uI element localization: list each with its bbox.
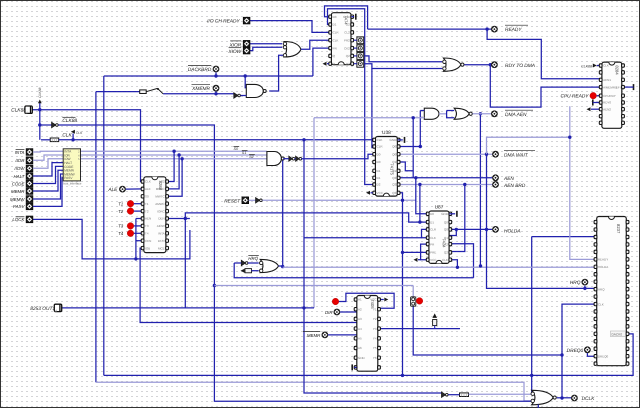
wire riser to status line	[282, 159, 284, 267]
svg-text:GND: GND	[343, 15, 351, 19]
svg-text:GND: GND	[441, 212, 449, 216]
svg-text:MEMR: MEMR	[11, 189, 25, 194]
resistor R1 clock	[50, 138, 59, 142]
flip-flop U30 7474	[329, 13, 354, 66]
termination EFI	[633, 84, 635, 90]
svg-text:PRE: PRE	[430, 251, 436, 255]
wire port to bus block	[33, 163, 63, 176]
svg-text:IORC: IORC	[157, 209, 165, 213]
svg-text:CL2: CL2	[344, 31, 350, 35]
svg-text:CK2: CK2	[344, 46, 350, 50]
svg-text:MWTC: MWTC	[155, 195, 165, 199]
wire VCC arrow stub	[418, 259, 421, 261]
wire RESET to inverter	[249, 199, 256, 201]
wire drop to NAND input A	[245, 76, 246, 88]
wire NOR input tie 2	[447, 110, 455, 112]
svg-text:MEMW: MEMW	[10, 197, 25, 202]
svg-text:AEN: AEN	[503, 176, 514, 182]
svg-text:Q2: Q2	[346, 62, 350, 66]
port AEN	[492, 174, 499, 181]
junction at DACK trunk	[401, 374, 404, 377]
svg-text:/IOR: /IOR	[14, 158, 25, 163]
port I/O CH READY	[243, 17, 250, 24]
port CODE	[26, 180, 33, 187]
wire S0 lavender	[81, 150, 267, 152]
svg-text:DREQ0: DREQ0	[598, 354, 609, 358]
wire RDY0 stub	[593, 102, 600, 104]
net flag arrow into OR	[241, 269, 245, 273]
svg-text:ALE: ALE	[145, 187, 151, 191]
svg-text:GND: GND	[358, 356, 366, 360]
svg-text:T4: T4	[118, 231, 124, 236]
bus controller U23 8288	[141, 177, 168, 253]
DACK0 pin label	[611, 331, 626, 337]
svg-text:A3: A3	[358, 317, 362, 321]
svg-text:ALE: ALE	[107, 187, 118, 193]
wire AND out link	[439, 113, 447, 115]
wire down to 8237 HRQ	[487, 154, 597, 288]
svg-text:T1: T1	[118, 202, 124, 207]
svg-text:8237: 8237	[616, 224, 621, 234]
svg-text:READY: READY	[598, 258, 608, 262]
svg-text:S0: S0	[145, 195, 149, 199]
svg-text:CLR: CLR	[430, 228, 437, 232]
net flag CLK88 up arrow	[38, 100, 42, 104]
wire 8288 loop	[136, 219, 190, 259]
port DCLK	[571, 395, 578, 402]
wire T4 stub	[134, 232, 144, 234]
svg-text:DCLK: DCLK	[582, 396, 596, 402]
junction at U87 pin2 line	[418, 220, 421, 223]
wire AND input A stub	[420, 110, 424, 112]
svg-text:Q2: Q2	[392, 183, 396, 187]
wire READY line	[368, 28, 492, 30]
wire down to 8237 READY	[570, 106, 597, 259]
wire AEN line	[399, 177, 493, 179]
wire DACKBRD net horizontal	[104, 75, 313, 77]
junction HOLDA line at trunk	[485, 228, 488, 231]
port HALT	[26, 173, 33, 180]
power bar U87 GND	[456, 211, 458, 217]
svg-text:D0: D0	[333, 15, 337, 19]
svg-text:D1: D1	[430, 220, 434, 224]
svg-text:Y2: Y2	[373, 317, 377, 321]
wire port to bus block	[33, 155, 63, 160]
wire down to U38 pin 2	[372, 69, 376, 148]
junction inverter tap	[38, 123, 41, 126]
junction OUT1 at x304	[302, 306, 305, 309]
net flag arrow U30 bottom	[323, 62, 327, 66]
NAND gate U21a 3-input	[267, 152, 284, 166]
wire HRQ port stub	[584, 286, 586, 289]
svg-text:AEN1: AEN1	[603, 78, 611, 82]
state indicator at jumper	[416, 298, 423, 305]
wire inverter to NAND	[241, 95, 247, 97]
svg-text:Q3: Q3	[392, 191, 396, 195]
junction AEN BRD drop	[418, 183, 421, 186]
wire U87 Q to HOLDA port	[449, 228, 492, 230]
svg-text:RDY0: RDY0	[603, 101, 611, 105]
wire HRQ inverter out	[248, 262, 259, 264]
wire CLK divider feed down	[304, 140, 442, 393]
state indicator at 7405	[332, 298, 339, 305]
junction S line	[177, 153, 180, 156]
net flag CLK arrow	[71, 130, 75, 134]
svg-text:VCC: VCC	[370, 298, 377, 302]
svg-text:Q2: Q2	[444, 251, 448, 255]
junction READY branch	[485, 27, 488, 30]
inverter U17a RESET	[256, 198, 263, 203]
svg-text:CODE: CODE	[12, 181, 25, 186]
wire 8288 pin west	[136, 240, 144, 242]
bus interface block U22	[63, 149, 82, 186]
wire branch to U87 PRE pin	[403, 251, 429, 253]
power bar U38 GND	[404, 137, 406, 143]
svg-text:CLK: CLK	[603, 64, 609, 68]
junction DACK trunk	[530, 374, 533, 377]
svg-text:DEN: DEN	[158, 217, 164, 221]
svg-text:T4: T4	[145, 232, 149, 236]
svg-text:CLK: CLK	[598, 302, 604, 306]
power bar U30 GND	[355, 14, 357, 20]
connector J1 pads	[357, 37, 364, 44]
svg-text:CLK: CLK	[76, 131, 83, 135]
junction RDY trunk end	[479, 264, 482, 267]
wire LOCK run	[33, 219, 136, 259]
wire VCC stub U38	[371, 192, 373, 194]
port RDY TO DMA	[491, 61, 498, 68]
junction 8237 READY feed	[568, 136, 571, 139]
NAND gate U13a	[246, 84, 266, 97]
junction LOCK merge	[134, 257, 137, 260]
wire RESET lavender run	[262, 199, 415, 201]
svg-text:D1: D1	[377, 169, 381, 173]
port XIOW	[243, 47, 250, 54]
junction AEN BRD drop 2	[463, 183, 466, 186]
port AEN BRD	[492, 181, 499, 188]
port XIOR	[243, 40, 250, 47]
port DIR	[334, 309, 341, 316]
svg-text:HALT: HALT	[13, 174, 24, 179]
svg-text:8284: 8284	[614, 65, 619, 75]
wire to DMA AEN port	[473, 113, 492, 115]
svg-text:Q0: Q0	[444, 228, 448, 232]
wire OR out lavender to 8237 HOLDA	[283, 266, 597, 268]
junction OR out	[281, 265, 284, 268]
wire port to bus block	[33, 150, 63, 153]
OR gate U14a with inverted inputs	[283, 42, 301, 58]
wire 8288 to 7405	[140, 248, 357, 322]
svg-text:DMA WAIT: DMA WAIT	[504, 153, 529, 159]
wire west run into U87 pin4	[304, 237, 422, 239]
svg-text:T3: T3	[118, 224, 124, 229]
svg-text:VCC: VCC	[377, 191, 384, 195]
junction DCLK trunk	[560, 353, 563, 356]
svg-text:A2: A2	[358, 307, 362, 311]
port RESET	[242, 197, 249, 204]
junction on CLK88-bar vertical	[213, 284, 216, 287]
svg-text:A6: A6	[358, 346, 362, 350]
wire flag to OR input B	[252, 270, 259, 272]
wire OR out to U30 pin 4	[301, 40, 331, 49]
wire to NOR U15 input B	[364, 64, 442, 69]
svg-text:Q2: Q2	[392, 176, 396, 180]
register U38 74175	[373, 137, 400, 197]
power bar 7405 GND	[351, 364, 353, 370]
junction DCLK out	[560, 396, 563, 399]
net flag VCC arrow U87	[414, 258, 418, 262]
state indicator T1	[127, 200, 134, 207]
svg-text:A1: A1	[358, 298, 362, 302]
wire CLK long run to U38	[59, 139, 376, 141]
wire HRQ feed run	[234, 263, 473, 278]
wire NOR out to DCLK port	[557, 397, 571, 399]
svg-text:A4: A4	[358, 327, 362, 331]
wire drop to AEN line	[412, 118, 414, 178]
NOR gate U15a	[443, 58, 464, 71]
inverter U21b	[289, 156, 295, 161]
junction AEN drop	[412, 116, 415, 119]
wire NAND out to OR input C	[269, 55, 284, 91]
wire status decode to U38	[301, 154, 375, 159]
svg-text:XMEMR: XMEMR	[191, 86, 210, 92]
svg-text:T2: T2	[145, 209, 149, 213]
svg-text:CLK88: CLK88	[62, 118, 77, 124]
svg-text:D1: D1	[333, 23, 337, 27]
svg-text:INTA: INTA	[158, 232, 165, 236]
wire port to bus block	[33, 170, 63, 191]
svg-text:U38: U38	[382, 130, 391, 136]
wire CLK stub 8284	[597, 65, 600, 67]
wire CLK88-bar long run	[58, 125, 531, 401]
svg-text:HRQ: HRQ	[570, 280, 581, 286]
svg-text:S2: S2	[161, 180, 165, 184]
wire U87 pin3-4 tie	[422, 229, 429, 237]
jumper JP1	[411, 297, 416, 306]
svg-text:Y1: Y1	[373, 307, 377, 311]
svg-text:HRQ: HRQ	[598, 287, 605, 291]
junction XMEMR port	[214, 92, 217, 95]
wire CLK88 down to divider	[39, 110, 41, 140]
wire into HRQ inverter	[234, 262, 241, 264]
svg-text:RESET: RESET	[224, 198, 241, 204]
junction S line	[172, 150, 175, 153]
inverter U18a HRQ	[241, 260, 248, 265]
port DREQ0	[584, 346, 591, 353]
svg-text:GND: GND	[390, 138, 398, 142]
wire XMEMR bottom run	[96, 382, 532, 401]
svg-text:VCC: VCC	[430, 258, 437, 262]
svg-text:Q0: Q0	[392, 152, 396, 156]
junction U87 pin2 tie	[455, 228, 458, 231]
svg-text:D0: D0	[377, 152, 381, 156]
wire jumper down to DCLK trunk	[413, 306, 562, 356]
wire 8253 OUT1 run	[62, 307, 314, 309]
svg-text:CEN: CEN	[145, 239, 151, 243]
wire XMEMR vertical trunk V1	[95, 92, 97, 383]
inverter CLK88	[52, 122, 59, 127]
wire port to bus block	[33, 159, 63, 169]
wire switch to inverter	[163, 93, 234, 95]
svg-text:DMA AEN: DMA AEN	[505, 112, 527, 118]
svg-text:PASV: PASV	[13, 204, 25, 209]
wire S drop to 8288	[169, 155, 179, 189]
wire port to bus block	[33, 174, 63, 199]
wire I/O CH READY to U30 pin 3	[250, 21, 331, 33]
state indicator T2	[127, 208, 134, 215]
net flag box	[245, 269, 252, 273]
junction NAND drop	[244, 74, 247, 77]
junction CLK to DCLK chain	[302, 138, 305, 141]
wire U38 Q1 jog	[399, 162, 413, 171]
svg-text:D1: D1	[377, 176, 381, 180]
wire XIOW to OR input B	[250, 47, 282, 50]
wire AND input B lavender	[314, 117, 424, 119]
svg-text:DREQ0: DREQ0	[567, 348, 584, 354]
svg-text:T2: T2	[118, 209, 124, 214]
wire U30 pin2 loop down to U38	[328, 9, 376, 185]
port 8253 OUT1	[54, 304, 61, 311]
svg-text:D0: D0	[430, 212, 434, 216]
junction RDY TO DMA branch	[489, 63, 492, 66]
wire riser from U38 Q0	[419, 111, 421, 147]
svg-text:Y5: Y5	[373, 346, 377, 350]
svg-text:U87: U87	[435, 205, 444, 211]
wire stub 8288 AEN pin	[136, 218, 144, 220]
wire DACKBRD vertical trunk V2	[103, 76, 105, 375]
svg-text:T3: T3	[145, 224, 149, 228]
port MEMW	[26, 196, 33, 203]
wire DACKBRD port stub	[215, 73, 217, 77]
wire stub below NOR gate	[537, 405, 539, 408]
wire U38 Q0-bar to DMA WAIT	[399, 153, 493, 155]
wire T2 stub	[134, 210, 144, 212]
state indicator T3	[127, 223, 134, 230]
wire U87 pin7 to lavender run	[449, 260, 457, 268]
port READY	[491, 26, 498, 33]
net flag CLK88 arrow at 8284	[593, 64, 597, 68]
net flag up arrow with box	[432, 313, 437, 328]
svg-text:D0: D0	[377, 160, 381, 164]
junction AEN to U87	[414, 176, 417, 179]
state indicator T4	[127, 230, 134, 237]
svg-text:INTA: INTA	[15, 150, 25, 155]
wire T1 stub	[134, 203, 144, 205]
port LOCK	[26, 216, 33, 223]
net flag arrow U38 VCC	[366, 191, 370, 195]
wire inverter to R2	[448, 394, 459, 396]
wire XIOR to OR input A	[250, 43, 282, 45]
svg-text:PR2: PR2	[344, 38, 350, 42]
junction U87 clock tap	[456, 266, 459, 269]
state indicator CPU READY	[590, 92, 597, 99]
wire to NOR U15 input A	[364, 56, 442, 62]
junction U87 PRE branch	[401, 251, 404, 254]
wire lavender mid run	[214, 285, 413, 287]
junction S line	[180, 157, 183, 160]
wire GND stub U87	[449, 213, 455, 215]
svg-text:READY: READY	[505, 27, 522, 33]
port PASV	[26, 203, 33, 210]
svg-text:MCE: MCE	[158, 246, 165, 250]
port DMA AEN	[491, 110, 498, 117]
wire to 8237 CS pin	[532, 236, 597, 238]
svg-text:Y6: Y6	[373, 356, 377, 360]
wire RDY TO DMA to 8284 pin	[490, 65, 599, 107]
wire S2 lavender	[81, 158, 267, 160]
svg-text:CLK: CLK	[442, 258, 448, 262]
wire GND stub U30	[351, 16, 354, 18]
wire MEMR to 7405	[328, 334, 357, 336]
wire U87 pin2 riser	[449, 229, 456, 235]
svg-text:CLK: CLK	[333, 38, 339, 42]
wire U38 Q0	[399, 146, 421, 148]
port IOR	[26, 157, 33, 164]
wire DACK trunk drop to NOR	[531, 375, 533, 393]
wire port to bus block	[33, 178, 63, 207]
svg-text:CLK88: CLK88	[11, 108, 26, 114]
svg-text:Q1: Q1	[392, 160, 396, 164]
wire 7405 output run	[378, 328, 460, 330]
svg-text:CLK: CLK	[377, 138, 383, 142]
port MEMR	[26, 188, 33, 195]
port DMA WAIT	[492, 151, 499, 158]
svg-text:AEN BRD: AEN BRD	[503, 183, 526, 189]
DMA controller U26 8237	[594, 217, 629, 366]
svg-text:CLK: CLK	[62, 133, 72, 139]
wire 7405 feedback loop	[339, 293, 394, 308]
OR gate U18b	[260, 259, 279, 272]
wire AEN BRD line	[399, 184, 493, 186]
svg-text:LOCK: LOCK	[12, 217, 25, 222]
svg-text:AMWC: AMWC	[155, 202, 165, 206]
wire vertical x531 trunk	[531, 237, 533, 376]
wire DIR stub	[340, 311, 357, 313]
inverter U21c	[296, 156, 302, 161]
wire port to bus block	[33, 166, 63, 183]
flip-flop U87 7474	[426, 211, 451, 263]
port XMEMR	[213, 85, 220, 92]
wire DREQ0 stub	[587, 353, 596, 356]
svg-text:AEN2: AEN2	[603, 107, 611, 111]
svg-text:Q1: Q1	[392, 169, 396, 173]
svg-text:HOLDA: HOLDA	[504, 228, 521, 234]
wire NAND to inv	[283, 158, 289, 160]
svg-text:Q1: Q1	[444, 236, 448, 240]
svg-text:T1: T1	[145, 202, 149, 206]
wire U38 Q3 vertical x402	[399, 193, 403, 376]
wire NOR out to RDY TO DMA port	[464, 64, 491, 66]
wire XMEMR to switch	[96, 91, 140, 93]
wire to CLK88 inverter	[41, 124, 52, 126]
port HRQ	[582, 279, 589, 286]
svg-text:Y4: Y4	[373, 337, 377, 341]
svg-text:RDY TO DMA: RDY TO DMA	[505, 63, 535, 69]
wire READY to 8284 AEN1	[487, 29, 599, 79]
junction status line	[281, 157, 284, 160]
svg-text:HRQ: HRQ	[248, 256, 258, 261]
svg-text:XIOW: XIOW	[227, 49, 241, 55]
switch S1	[140, 88, 163, 94]
clock generator U25 8284	[599, 62, 624, 128]
wire inv to inv	[295, 158, 296, 160]
port INTA	[26, 149, 33, 156]
wire CLK flag stub	[72, 134, 74, 140]
wire T3 stub	[134, 225, 144, 227]
svg-text:8253 OUT1: 8253 OUT1	[30, 306, 55, 312]
port ALE	[119, 186, 126, 193]
wire arrow stub U30	[327, 63, 329, 65]
